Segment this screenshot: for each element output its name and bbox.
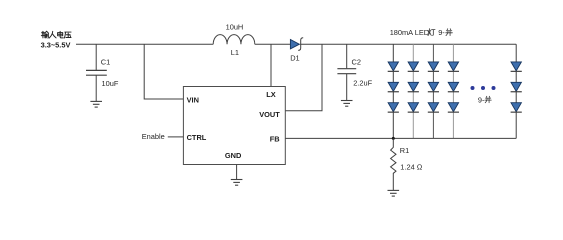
ground under IC	[231, 180, 243, 186]
wire FB rail	[285, 137, 516, 139]
node LED array title 180mA LED灯 9-并	[390, 28, 453, 37]
svg-text:GND: GND	[225, 151, 242, 160]
ground under C2	[341, 101, 353, 107]
svg-text:9-: 9-	[478, 96, 485, 105]
wire GND stub	[236, 165, 238, 180]
svg-text:1.24 Ω: 1.24 Ω	[400, 162, 422, 171]
svg-text:CTRL: CTRL	[187, 133, 207, 142]
IC U1	[183, 87, 285, 165]
svg-text:9-: 9-	[438, 28, 445, 37]
svg-text:L1: L1	[231, 48, 239, 57]
svg-text:C1: C1	[101, 57, 110, 66]
svg-text:LX: LX	[266, 90, 276, 99]
LED string 1	[388, 44, 399, 138]
junction FB R1	[392, 137, 395, 140]
LED string 2	[408, 44, 419, 138]
svg-text:FB: FB	[270, 135, 280, 144]
wire VOUT riser	[285, 44, 322, 111]
svg-text:180mA LED: 180mA LED	[390, 28, 429, 37]
svg-text:D1: D1	[290, 53, 299, 62]
capacitor C1	[86, 57, 119, 101]
node input label 输入电压 3.3~5.5V	[41, 31, 71, 49]
resistor R1	[391, 138, 423, 190]
node label 9-并	[478, 96, 491, 105]
svg-text:Enable: Enable	[142, 132, 165, 141]
svg-text:VOUT: VOUT	[259, 110, 280, 119]
wire top rail input to L1	[76, 43, 213, 45]
svg-text:C2: C2	[352, 58, 361, 67]
wire VIN feed	[144, 44, 183, 99]
diode D1 (schottky)	[290, 38, 303, 63]
LED string 3	[428, 44, 439, 138]
svg-text:3.3~5.5V: 3.3~5.5V	[41, 40, 71, 49]
LED string 9	[511, 44, 522, 138]
LED string 4	[448, 44, 459, 138]
svg-text:VIN: VIN	[187, 95, 199, 104]
svg-text:10uH: 10uH	[226, 22, 244, 31]
node continuation dots	[471, 86, 496, 90]
svg-text:10uF: 10uF	[102, 79, 119, 88]
svg-text:2.2uF: 2.2uF	[353, 79, 372, 88]
svg-text:R1: R1	[400, 146, 409, 155]
wire C1 tap	[95, 44, 97, 70]
capacitor C2	[337, 58, 372, 101]
wire D1 to rail end	[300, 43, 516, 45]
wire Enable to CTRL	[168, 136, 184, 138]
ground under R1	[388, 190, 400, 196]
wire LX tap	[270, 44, 272, 86]
wire L1 to D1	[255, 43, 291, 45]
ground under C1	[90, 101, 102, 107]
wire C2 tap	[346, 44, 348, 68]
inductor L1	[213, 22, 255, 57]
